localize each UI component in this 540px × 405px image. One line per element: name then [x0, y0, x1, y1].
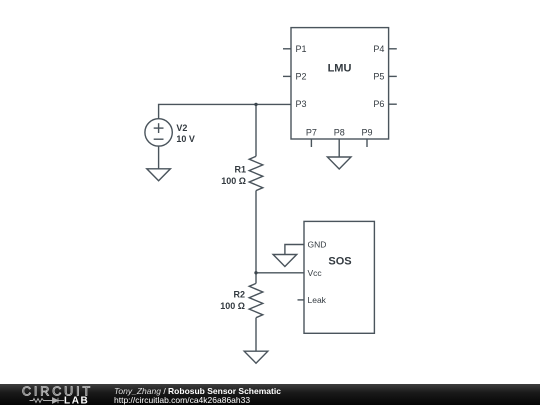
- footer url line: [114, 395, 250, 405]
- svg-text:P8: P8: [334, 128, 345, 138]
- wire node B to Vcc pin: [256, 272, 304, 274]
- pin P6 stub: [389, 103, 397, 105]
- svg-text:Vcc: Vcc: [308, 268, 323, 278]
- pin P5 stub: [389, 75, 397, 77]
- junction node A dot: [254, 103, 257, 106]
- pin Leak stub: [298, 299, 305, 301]
- pin P2 stub: [283, 75, 291, 77]
- CircuitLab logo: [0, 384, 100, 405]
- svg-text:100 Ω: 100 Ω: [220, 301, 245, 311]
- svg-text:Leak: Leak: [308, 295, 327, 305]
- svg-text:R1: R1: [234, 165, 246, 175]
- wire R2 to ground: [255, 318, 257, 352]
- svg-text:P6: P6: [373, 99, 384, 109]
- V2 plus sign: [154, 127, 164, 129]
- ground at P8: [327, 157, 351, 169]
- wire node A down to R1: [255, 104, 257, 156]
- svg-text:P9: P9: [361, 128, 372, 138]
- resistor R1 zigzag: [249, 156, 263, 190]
- svg-text:V2: V2: [176, 123, 187, 133]
- voltage source V2 circle: [145, 119, 172, 146]
- ground at SOS GND: [273, 255, 297, 267]
- wire V2 bottom to ground: [158, 146, 160, 169]
- svg-text:R2: R2: [233, 290, 245, 300]
- pin P1 stub: [283, 48, 291, 50]
- IC U1 LMU box: [291, 28, 389, 139]
- ground under V2: [147, 169, 171, 181]
- svg-text:LMU: LMU: [328, 63, 352, 75]
- pin P7 stub: [310, 139, 312, 147]
- svg-text:SOS: SOS: [328, 256, 351, 268]
- junction node B dot: [254, 271, 257, 274]
- svg-text:100 Ω: 100 Ω: [221, 176, 246, 186]
- V2 minus sign: [154, 138, 164, 140]
- svg-text:10 V: 10 V: [176, 134, 195, 144]
- wire GND pin to ground: [285, 245, 304, 255]
- footer title line: [114, 386, 281, 396]
- logo resistor-diode symbol: [30, 398, 65, 403]
- resistor R2 zigzag: [249, 283, 263, 317]
- ground under R2: [244, 351, 268, 363]
- svg-text:GND: GND: [308, 240, 327, 250]
- footer bar: [0, 384, 540, 405]
- wire R1 to node B: [255, 191, 257, 273]
- svg-text:P2: P2: [296, 71, 307, 81]
- svg-text:LAB: LAB: [64, 396, 89, 405]
- svg-text:P5: P5: [373, 71, 384, 81]
- IC U2 SOS box: [304, 221, 374, 333]
- wire V2 top to P3: [159, 104, 291, 118]
- svg-text:P1: P1: [296, 44, 307, 54]
- pin P9 stub: [366, 139, 368, 147]
- wire P8 to ground: [338, 139, 340, 157]
- wire node B to R2: [255, 273, 257, 284]
- svg-text:P7: P7: [306, 128, 317, 138]
- svg-text:P3: P3: [296, 99, 307, 109]
- svg-text:P4: P4: [373, 44, 384, 54]
- pin P4 stub: [389, 48, 397, 50]
